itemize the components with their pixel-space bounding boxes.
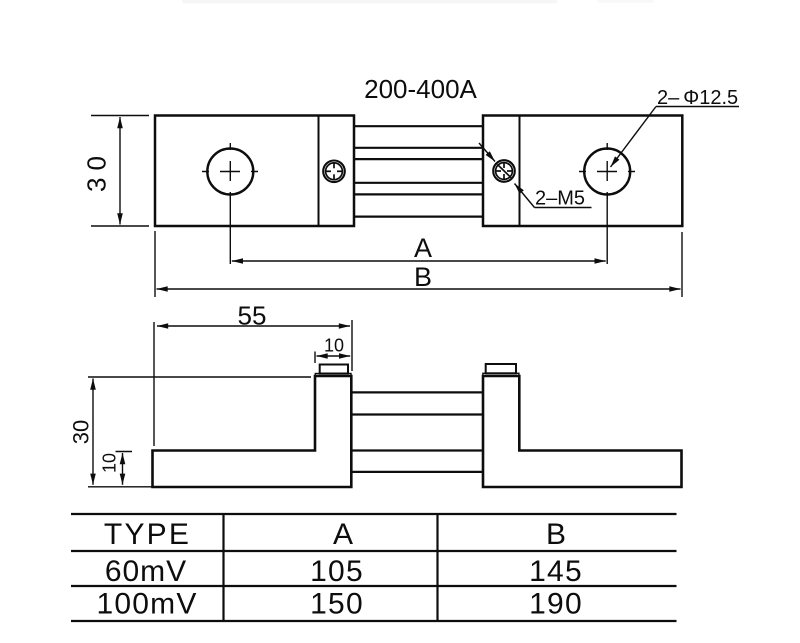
svg-text:200-400A: 200-400A <box>364 74 477 104</box>
svg-text:100mV: 100mV <box>96 588 197 621</box>
svg-text:10: 10 <box>100 453 120 473</box>
svg-text:TYPE: TYPE <box>104 518 191 551</box>
svg-text:A: A <box>333 518 353 551</box>
svg-text:55: 55 <box>238 301 267 331</box>
svg-text:190: 190 <box>529 588 583 621</box>
svg-text:B: B <box>414 262 432 292</box>
svg-text:145: 145 <box>529 555 583 588</box>
svg-text:105: 105 <box>310 555 364 588</box>
svg-text:A: A <box>414 233 432 263</box>
svg-text:2–M5: 2–M5 <box>535 188 585 210</box>
svg-text:30: 30 <box>82 149 112 192</box>
svg-text:B: B <box>546 518 566 551</box>
svg-text:30: 30 <box>69 420 94 444</box>
svg-text:60mV: 60mV <box>105 555 187 588</box>
svg-text:10: 10 <box>324 336 344 356</box>
svg-text:2– Φ12.5: 2– Φ12.5 <box>657 87 738 109</box>
svg-text:150: 150 <box>310 588 364 621</box>
